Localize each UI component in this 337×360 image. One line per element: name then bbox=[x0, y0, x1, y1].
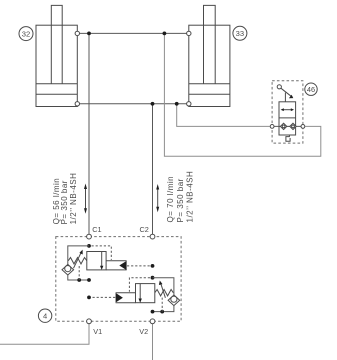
valve 46 flow arrow bbox=[281, 108, 294, 111]
port V1 bbox=[87, 319, 103, 336]
node junction A1 on C1 line bbox=[87, 244, 91, 248]
cylinder 33 rod bbox=[204, 5, 216, 83]
svg-text:46: 46 bbox=[307, 85, 315, 94]
pilot dashed line valve 1 external (to C2 line) bbox=[127, 265, 153, 267]
flow arrow left hose bbox=[84, 184, 87, 214]
junction bottom header / C2 line bbox=[151, 102, 155, 106]
wire top rod-side header (cyl32 top port to cyl33 top port) bbox=[77, 32, 189, 34]
cylinder 32 body bbox=[36, 25, 77, 106]
svg-text:4: 4 bbox=[43, 312, 47, 321]
cylinder 32 piston bbox=[36, 84, 77, 94]
svg-text:V1: V1 bbox=[93, 327, 102, 336]
pilot dashed spring sense line valve 1 bbox=[78, 266, 80, 280]
flow arrow right hose bbox=[156, 184, 159, 212]
valve block 4 boundary box bbox=[56, 237, 181, 322]
adjustment arrow of valve 2 bbox=[159, 281, 166, 298]
cylinder 32 top port bbox=[75, 31, 79, 35]
flow arrow inside valve 2 bbox=[139, 284, 142, 303]
svg-text:C2: C2 bbox=[139, 225, 148, 234]
pilot junction on C2 line bbox=[151, 264, 155, 268]
wire V1 outlet (down from V1 then left off page) bbox=[0, 324, 89, 345]
valve 46 drain detent bbox=[286, 135, 290, 141]
svg-text:1/2’’ NB-4SH: 1/2’’ NB-4SH bbox=[185, 171, 194, 223]
svg-text:P= 350 bar: P= 350 bar bbox=[176, 178, 185, 222]
wire check branch 1 (A1 left and down to check valve) bbox=[68, 246, 89, 265]
counterbalance valve 2 square bbox=[136, 284, 155, 303]
valve 46 right port bbox=[301, 125, 305, 129]
hose label right (rotated) bbox=[166, 171, 195, 223]
valve 46 left port bbox=[270, 125, 274, 129]
junction top header / C1 line bbox=[87, 32, 91, 36]
svg-text:1/2’’ NB-4SH: 1/2’’ NB-4SH bbox=[69, 173, 78, 225]
cylinder 33 top port bbox=[187, 31, 191, 35]
junction B1 on C1 line bbox=[87, 278, 91, 282]
pilot dashed line valve 2 external (to C1 line) bbox=[89, 296, 115, 298]
balloon label 46 bbox=[305, 83, 317, 95]
port V2 bbox=[139, 319, 155, 336]
pilot dashed spring sense line valve 2 bbox=[161, 298, 163, 312]
cylinder 33 body bbox=[189, 25, 230, 106]
wire check branch 2 (D2 right and down to check valve) bbox=[153, 278, 174, 296]
valve 46 body divider bbox=[279, 117, 296, 119]
pilot junction dot P2 bbox=[160, 310, 164, 314]
svg-text:33: 33 bbox=[236, 29, 244, 38]
junction bottom header / 46 line bbox=[175, 102, 179, 106]
cylinder 32 bottom port bbox=[75, 102, 79, 106]
spring of counterbalance valve 1 bbox=[68, 258, 87, 264]
flow arrow inside valve 1 bbox=[100, 252, 103, 270]
port C2 bbox=[139, 225, 154, 239]
cylinder 33 bottom port bbox=[187, 102, 191, 106]
port C1 bbox=[87, 225, 102, 239]
valve 46 boundary box bbox=[272, 81, 303, 143]
cylinder 32 rod bbox=[51, 5, 62, 83]
junction top header / 46 line bbox=[163, 32, 167, 36]
check channel rails valve 2 bbox=[116, 293, 136, 303]
check poppet triangle valve 1 bbox=[119, 261, 126, 270]
wire to valve 46 right port (drop from top header, across, up) bbox=[164, 33, 320, 156]
wire bottom piston-side header (cyl32 bottom port to cyl33 bottom port) bbox=[77, 103, 189, 105]
pilot dashed line valve 2 internal bbox=[129, 278, 150, 292]
check valve CV1 (diamond with ball) bbox=[62, 264, 74, 275]
pilot junction dot P1 bbox=[77, 278, 81, 282]
wire V2 outlet (down from V2 off page bottom) bbox=[152, 324, 154, 360]
check valve CV2 (diamond with ball) bbox=[168, 295, 180, 306]
wire C2 drop line (bottom header to port C2) bbox=[152, 104, 154, 235]
valve 46 through line bbox=[274, 125, 301, 127]
pilot junction on C1 line bbox=[87, 296, 91, 300]
balloon label 33 bbox=[233, 26, 247, 40]
balloon label 32 bbox=[19, 27, 33, 41]
wire check branch 2 lower (check valve down, left to E2) bbox=[153, 306, 174, 312]
wire check branch 1 lower (check valve down, right to B1) bbox=[68, 275, 89, 280]
cylinder 33 piston bbox=[189, 84, 230, 94]
wire C1 drop line (top header to port C1) bbox=[88, 33, 90, 234]
svg-text:32: 32 bbox=[22, 29, 30, 38]
valve 46 right seat check bbox=[290, 123, 296, 129]
svg-text:C1: C1 bbox=[92, 225, 101, 234]
valve 46 internal line bbox=[279, 125, 296, 127]
check channel rails valve 1 bbox=[106, 261, 127, 270]
junction E2 on C2 line bbox=[151, 310, 155, 314]
svg-text:Q= 70 l/min: Q= 70 l/min bbox=[166, 176, 175, 223]
wire to valve 46 left port (drop from bottom header, across) bbox=[177, 104, 270, 127]
check poppet triangle valve 2 bbox=[116, 293, 123, 303]
svg-text:V2: V2 bbox=[139, 327, 148, 336]
adjustment arrow of valve 1 bbox=[74, 250, 83, 269]
pilot dashed line valve 1 internal bbox=[92, 246, 112, 260]
valve 46 left seat check bbox=[280, 123, 286, 129]
hose label left (rotated) bbox=[52, 173, 78, 225]
balloon label 4 bbox=[38, 309, 51, 322]
counterbalance valve 1 square bbox=[87, 252, 106, 270]
spring of counterbalance valve 2 bbox=[155, 290, 174, 296]
svg-text:P= 350 bar: P= 350 bar bbox=[60, 180, 69, 224]
node junction D2 on C2 line bbox=[151, 276, 155, 280]
valve 46 body bbox=[279, 102, 296, 135]
valve 46 lever bbox=[277, 85, 293, 102]
